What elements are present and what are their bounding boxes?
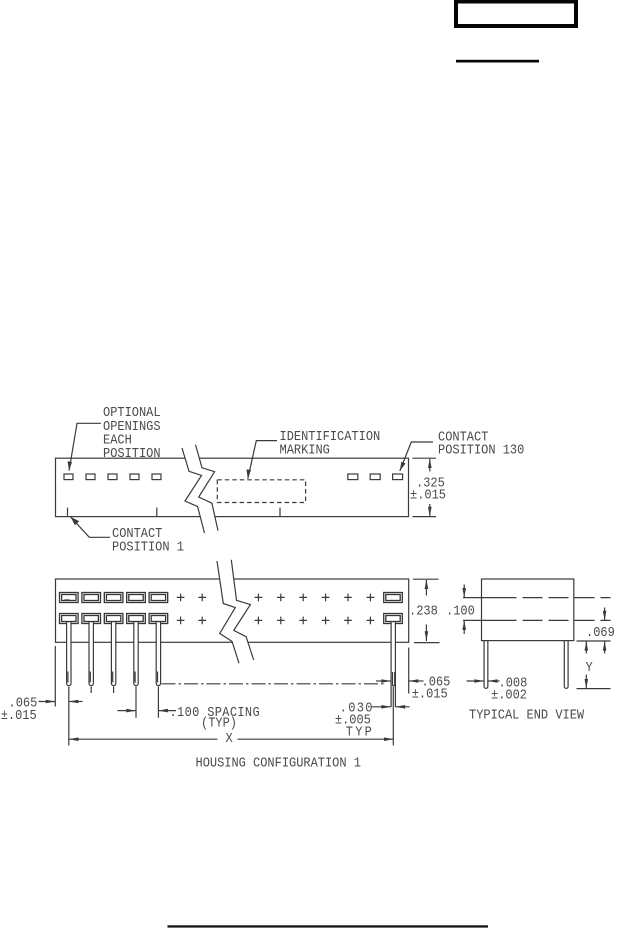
- .325 dim extension line top: [413, 457, 437, 459]
- plus row1 b: [198, 594, 206, 602]
- end view dashed line 1: [463, 597, 517, 599]
- svg-text:±.015: ±.015: [1, 707, 37, 723]
- leg 130 left line: [390, 622, 392, 708]
- position tick 3: [279, 508, 281, 517]
- leg 1 center extension line: [68, 687, 70, 746]
- plus row1 h: [367, 594, 375, 602]
- end view left leg: [484, 641, 488, 689]
- svg-text:.069: .069: [586, 624, 615, 640]
- arrowhead: .030 (left): [396, 705, 406, 709]
- plus row2 b: [198, 617, 206, 625]
- contact 5 row2 inner: [151, 616, 165, 622]
- optional opening 5: [152, 474, 161, 480]
- end view dashed line 2: [463, 619, 517, 621]
- optional opening right 1: [348, 474, 358, 480]
- svg-text:±.015: ±.015: [412, 686, 448, 702]
- contact 130 row1 inner: [386, 595, 400, 601]
- contact 1 polarity tick: [64, 599, 69, 601]
- plus row1 c: [255, 594, 263, 602]
- left .065 arrow tails: [39, 701, 56, 703]
- arrowhead: .069 bottom (up): [603, 641, 607, 651]
- svg-text:±.002: ±.002: [491, 687, 527, 703]
- arrowhead: .008 (left): [488, 679, 498, 683]
- leg 4: [134, 622, 138, 686]
- leg 5 center extension: [157, 687, 159, 718]
- .100 spacing arrow tails: [118, 710, 136, 712]
- contact 4 row1 inner: [129, 595, 143, 601]
- arrowhead: left .065 (right): [46, 700, 56, 704]
- svg-text:.238: .238: [409, 603, 438, 619]
- arrowhead: X right: [384, 737, 394, 741]
- right .065 arrow tails: [376, 680, 391, 682]
- arrowhead: .238 top (up): [425, 579, 429, 589]
- leader: contact position 1: [71, 517, 111, 538]
- arrowhead: .100 spacing (right): [126, 709, 136, 713]
- contact 3 row1 inner: [106, 595, 120, 601]
- plus row2 f: [322, 617, 330, 625]
- contact 5 row1 inner: [151, 595, 165, 601]
- .008 arrow tails: [467, 680, 484, 682]
- top view break band: [182, 445, 218, 533]
- housing right edge extension: [408, 648, 410, 694]
- leg 4 inner tip: [134, 672, 136, 683]
- top view break line left: [182, 448, 205, 533]
- contact 1 row2 outer: [60, 614, 79, 624]
- arrowhead: left .065 (left): [69, 700, 79, 704]
- leg 130 right line: [394, 622, 396, 708]
- leg 1: [67, 622, 71, 686]
- contact 2 row2 inner: [84, 616, 98, 622]
- legs: [67, 622, 396, 708]
- arrowhead: .325 top (up): [428, 458, 432, 468]
- arrowhead: contact position 1 leader: [71, 517, 80, 525]
- .030 arrow tails: [372, 706, 391, 708]
- plus marks: [177, 594, 374, 625]
- contact 5 row1 outer: [149, 593, 168, 603]
- right extension line at body bottom: [577, 640, 611, 642]
- arrowhead: Y top (up): [585, 641, 589, 651]
- svg-text:POSITION 1: POSITION 1: [112, 539, 184, 555]
- contact 2 row2 outer: [82, 614, 101, 624]
- leg 1 inner tip: [67, 672, 69, 683]
- contact 3 row2 outer: [104, 614, 123, 624]
- arrowhead: .100 spacing (left): [158, 709, 168, 713]
- X dimension line right part: [238, 738, 394, 740]
- svg-text:MARKING: MARKING: [280, 442, 330, 458]
- plus row2 d: [277, 617, 285, 625]
- contact 4 row2 outer: [127, 614, 146, 624]
- leg 3 center extension: [113, 687, 115, 694]
- .325 dim arrow top tail: [429, 459, 431, 472]
- svg-text:X: X: [226, 730, 233, 746]
- arrowhead: .069 top (down): [603, 611, 607, 621]
- top view housing outline: [56, 458, 409, 516]
- leader: contact position 130: [400, 442, 433, 471]
- svg-text:POSITION 130: POSITION 130: [438, 442, 524, 458]
- svg-text:TYP: TYP: [346, 724, 374, 740]
- front view housing outline: [56, 579, 409, 642]
- arrowhead: right .065 (left): [409, 679, 419, 683]
- identification marking dashed box: [217, 480, 305, 503]
- contact 1 row1 inner: [62, 595, 76, 601]
- arrowhead: .238 bottom (down): [425, 631, 429, 641]
- contact 2 row1 outer: [82, 593, 101, 603]
- contact 4 row2 inner: [129, 616, 143, 622]
- right extension line at leg bottom: [577, 688, 611, 690]
- plus row1 f: [322, 594, 330, 602]
- title block box (top right): [456, 2, 576, 27]
- X dimension line left part: [69, 738, 218, 740]
- bottom rule: [168, 925, 489, 927]
- optional opening right 2: [370, 474, 380, 480]
- leg 3 inner tip: [112, 672, 114, 683]
- optional opening 1: [64, 474, 73, 480]
- leader: identification marking: [248, 441, 277, 479]
- optional opening right (position 130): [393, 474, 403, 480]
- .325 dim extension line bottom: [413, 516, 437, 518]
- svg-text:.100: .100: [446, 603, 475, 619]
- leg 5: [156, 622, 160, 686]
- plus row1 g: [344, 594, 352, 602]
- contact 3 row2 inner: [106, 616, 120, 622]
- plus row2 e: [299, 617, 307, 625]
- arrowhead: X left: [69, 737, 79, 741]
- contact 4 row1 outer: [127, 593, 146, 603]
- plus row2 a: [177, 617, 185, 625]
- svg-text:POSITION: POSITION: [103, 445, 161, 461]
- arrowhead: .008 (right): [474, 679, 484, 683]
- front view contacts: [60, 593, 403, 624]
- contact 1 row2 inner: [62, 616, 76, 622]
- optional opening 3: [108, 474, 117, 480]
- arrowhead: identification marking leader: [247, 469, 252, 478]
- contact position 1 tick: [67, 508, 69, 517]
- contact row centerline (dash-dot): [162, 683, 386, 685]
- leg 2 center extension: [90, 687, 92, 694]
- contact 130 row2 outer: [384, 614, 403, 624]
- .238 arrow top tail: [425, 580, 427, 596]
- plus row1 a: [177, 594, 185, 602]
- arrowhead: Y bottom (down): [585, 679, 589, 689]
- svg-text:HOUSING CONFIGURATION 1: HOUSING CONFIGURATION 1: [196, 755, 362, 771]
- leg 130 mask: [391, 623, 395, 708]
- svg-text:TYPICAL END VIEW: TYPICAL END VIEW: [469, 707, 584, 723]
- .100 end view arrow tails: [463, 585, 465, 598]
- .238 dim extension bottom: [414, 642, 440, 644]
- .325 dim arrow bottom tail: [429, 504, 431, 516]
- contact 3 row1 outer: [104, 593, 123, 603]
- plus row1 d: [277, 594, 285, 602]
- leg 4 mask: [134, 623, 138, 685]
- contact 2 row1 inner: [84, 595, 98, 601]
- arrowhead: contact position 130 leader: [400, 462, 406, 471]
- .238 arrow bottom tail: [425, 625, 427, 642]
- leg 130 center extension: [392, 687, 394, 746]
- leg 1 mask: [67, 623, 71, 685]
- contact 130 row2 inner: [386, 616, 400, 622]
- arrowhead: .325 bottom (down): [428, 507, 432, 517]
- .238 dim extension top: [413, 578, 439, 580]
- arrowhead: end .100 top (down): [462, 588, 466, 598]
- arrowhead: optional openings leader: [68, 461, 73, 470]
- svg-text:±.015: ±.015: [410, 486, 446, 502]
- leg 3: [111, 622, 115, 686]
- arrowhead: .030 (right): [381, 705, 391, 709]
- arrowhead: end .100 bottom (up): [462, 620, 466, 630]
- optional opening 4: [130, 474, 139, 480]
- leg 3 mask: [112, 623, 116, 685]
- front view break line left: [217, 561, 239, 663]
- svg-text:Y: Y: [586, 659, 593, 675]
- housing left edge extension line: [54, 646, 56, 707]
- .069 arrow tails: [604, 608, 606, 621]
- plus row2 h: [367, 617, 375, 625]
- arrowhead: right .065 (right): [381, 679, 391, 683]
- optional opening 2: [86, 474, 95, 480]
- leg 130 inner tip: [393, 672, 395, 686]
- top view break line right: [196, 445, 219, 531]
- leg 5 mask: [157, 623, 161, 685]
- leg 2 inner tip: [89, 672, 91, 683]
- leg 2: [89, 622, 93, 686]
- plus row1 e: [299, 594, 307, 602]
- plus row2 c: [255, 617, 263, 625]
- front view break line right: [231, 560, 253, 660]
- leader: optional openings: [69, 423, 101, 470]
- contact 1 row1 outer: [60, 593, 79, 603]
- end view right leg: [564, 641, 568, 689]
- leg 5 inner tip: [157, 672, 159, 683]
- leg 2 mask: [89, 623, 93, 685]
- front view break band: [217, 560, 254, 664]
- contact 130 row1 outer: [384, 593, 403, 603]
- leg 4 center extension: [135, 687, 137, 718]
- plus row2 g: [344, 617, 352, 625]
- svg-text:(TYP): (TYP): [201, 715, 237, 731]
- Y arrow tails: [585, 641, 587, 653]
- end view body outline: [482, 579, 574, 641]
- position tick 2: [156, 508, 158, 517]
- title underline bar: [456, 60, 539, 63]
- contact 5 row2 outer: [149, 614, 168, 624]
